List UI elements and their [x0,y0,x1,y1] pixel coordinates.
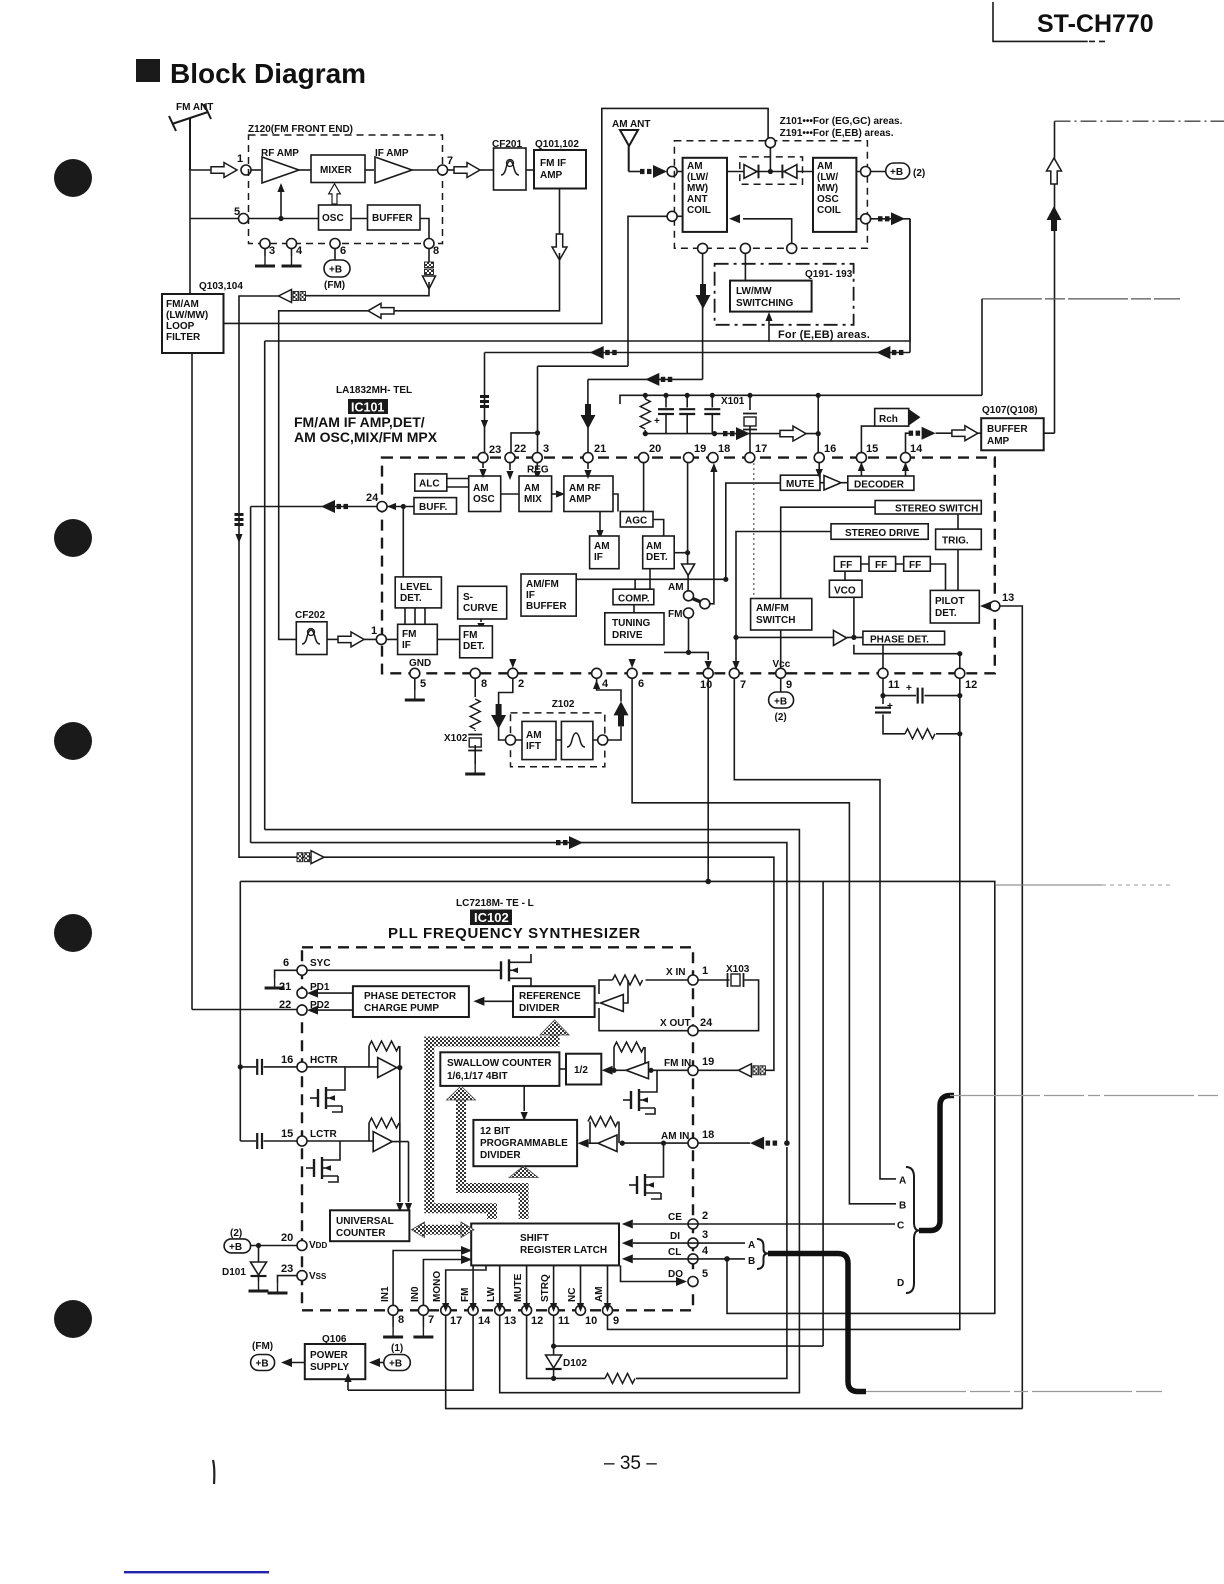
AM RF AMP box [564,476,613,512]
node VDD pin20 [297,1241,307,1251]
wire pin23 into AM OSC [482,463,484,468]
wire trig to pilot det [957,550,959,591]
svg-text:AM OSC,MIX/FM MPX: AM OSC,MIX/FM MPX [294,429,438,445]
svg-text:DET.: DET. [463,641,485,652]
wire X101 rail up [981,299,983,395]
phase det inverter [834,630,847,645]
svg-text:DRIVE: DRIVE [612,630,643,641]
node osc coil out lower [861,214,871,224]
wire charge pump to PD1 [318,992,353,994]
node pin24 [377,502,387,512]
svg-text:Block Diagram: Block Diagram [170,58,366,89]
wire IF amp to pin7 [412,169,438,171]
svg-text:24: 24 [366,492,379,504]
wire phase det to pin12 rail [854,645,960,669]
resistor pin8 [470,699,480,729]
svg-text:AM/FM: AM/FM [526,579,559,590]
wire DI line to A [633,1242,745,1244]
wire pin17 to SR [446,1265,486,1305]
arrow pin13 into pilot det [984,605,990,607]
arrow on am rf input rail [645,373,672,386]
node CE pin2 [688,1219,698,1229]
wire pin13 to SR [499,1265,501,1305]
svg-text:FF: FF [875,560,887,571]
node Z101 top [765,138,775,148]
wire AM MIX to AM RF AMP [552,493,556,495]
node DO pin5 [688,1277,698,1287]
AM OSC box [469,476,501,512]
IC101 top pin 19 [684,453,694,463]
hatch bus universal counter link [423,1225,463,1235]
IC101 bottom pin 8 [470,668,480,678]
svg-text:17: 17 [755,443,767,455]
svg-text:AM: AM [473,483,489,494]
svg-text:1: 1 [371,625,377,637]
brace AB group [757,1239,768,1269]
svg-text:Q103,104: Q103,104 [199,281,243,292]
Z102 dashed enclosure [511,713,605,767]
svg-text:ANT: ANT [687,194,708,205]
wire swallow to divider [523,1086,525,1111]
arrow ref divider to charge pump [484,1000,513,1002]
IC101 top pin 16 [814,453,824,463]
svg-text:+B: +B [329,265,342,276]
LW/MW switching box [730,281,812,312]
svg-text:3: 3 [543,443,549,455]
svg-text:For (E,EB) areas.: For (E,EB) areas. [778,329,870,341]
hatch arrow on FM rail pointing left [279,290,306,303]
svg-text:15: 15 [866,443,878,455]
wire FM IF to FM DET [437,638,459,640]
svg-text:IN1: IN1 [380,1286,391,1302]
wire AM out drop to AM IN rail [250,507,252,843]
svg-text:FM: FM [402,629,416,640]
svg-text:7: 7 [428,1314,434,1326]
wire comp to tuning drive [633,605,635,613]
svg-text:8: 8 [398,1314,404,1326]
phase detector charge pump box [353,986,469,1017]
AGC box [620,512,653,528]
node Z101 bottom 1 [698,243,708,253]
LCTR mosfet drop [338,1141,340,1160]
FF box 3 [904,557,931,572]
junction pin3 pin22 [535,430,540,435]
svg-text:DO: DO [668,1269,683,1280]
svg-text:STEREO DRIVE: STEREO DRIVE [845,528,920,539]
svg-text:LW: LW [486,1286,497,1302]
IC101 bottom pin 2 [508,668,518,678]
IC101 top pin 3 [532,453,542,463]
wire pin10 to SR [580,1265,582,1305]
binding hole dot 4 [54,914,92,952]
wire pin8 down [474,678,476,697]
FM IN inverter network [651,1069,688,1071]
svg-text:(FM): (FM) [324,280,345,291]
thick data wire AB [768,1254,866,1392]
arrow on pin24 feed [321,500,348,513]
wire pin21 drop [587,379,589,404]
svg-text:FM: FM [668,609,682,620]
svg-text:RF AMP: RF AMP [261,148,299,159]
svg-text:CL: CL [668,1247,681,1258]
wire ant coil to varactors [727,171,744,173]
HCTR CL loop top rail [240,881,995,1313]
STRQ riser [822,881,824,1346]
svg-text:LEVEL: LEVEL [400,582,432,593]
wire BUFFER to pin8 [420,219,429,239]
page header ST-CH770 frame [993,2,1105,41]
wire pin11 to SR [553,1265,555,1305]
hatch bus ref divider [429,1033,554,1219]
svg-text:DECODER: DECODER [854,480,905,491]
node CL pin4 [688,1254,698,1264]
faint line AB continuation [866,1391,1162,1393]
X101 bottom rail [645,433,818,435]
node pin7 [438,165,448,175]
IC101 top pin 21 [583,453,593,463]
wire antenna line down to loop filter [189,170,191,294]
AM band line pin9 to IC101 pin12 [608,734,960,1330]
svg-text:7: 7 [740,679,746,691]
open arrow up into mixer [329,184,341,204]
node PD2 pin22 [297,1005,307,1015]
wire AM DET to COMP [649,569,651,590]
wire pin12 down [959,678,961,734]
wire VCO to phase node [853,597,855,637]
svg-text:DET.: DET. [935,608,957,619]
open arrow on X101 bottom rail [780,426,806,441]
hatch marks on FM drop [235,513,244,526]
wire decoder to pin15 [860,471,862,476]
Rch tag [875,409,909,427]
svg-text:LW/MW: LW/MW [736,286,772,297]
wire VCO to FF1 [844,571,846,580]
arrow into switching box [768,320,770,342]
svg-text:DET.: DET. [400,593,422,604]
amplifier IF AMP [375,157,412,183]
buffer amp box [981,418,1043,450]
wire LCTR to universal counter [408,1142,410,1202]
node pin1 [241,165,251,175]
wire loop filter down to PD2 [191,353,193,1010]
wire AM OSC to AM MIX [501,493,519,495]
binding hole dot 3 [54,722,92,760]
svg-text:12: 12 [531,1315,543,1327]
svg-text:IC101: IC101 [351,401,384,415]
svg-text:(LW/: (LW/ [817,172,838,183]
open arrow on FM IF rail pointing left [368,303,394,318]
IC101 bottom pin 5 [410,668,420,678]
svg-text:A: A [899,1176,906,1187]
svg-text:14: 14 [910,443,923,455]
binding hole dot 2 [54,519,92,557]
wire to AM contact [687,576,689,591]
node osc coil right [861,167,871,177]
junction varactors [768,169,773,174]
svg-text:5: 5 [702,1268,708,1280]
svg-text:SHIFT: SHIFT [520,1233,549,1244]
svg-text:+: + [906,683,912,694]
wire CF201 to FM IF amp [526,169,534,171]
node PD1 pin21 [297,988,307,998]
svg-text:AM ANT: AM ANT [612,119,651,130]
svg-text:18: 18 [702,1129,714,1141]
AM DET box [643,536,675,569]
VSS ground [278,1276,298,1283]
svg-text:24: 24 [700,1017,713,1029]
svg-text:4: 4 [296,245,303,257]
ground pin8 [392,1315,394,1327]
svg-text:CE: CE [668,1212,682,1223]
wire FM rail to left drop [239,296,280,851]
Z102 ceramic filter [561,721,593,759]
svg-text:+B: +B [774,697,787,708]
mixer box [311,155,365,183]
svg-text:12 BIT: 12 BIT [480,1126,510,1137]
arrows onto bottom pins [442,1303,449,1312]
BUFFER box [368,205,421,230]
LW/MW switching dashed enclosure [715,264,854,325]
IC102 bottom pin 14 [468,1305,478,1315]
arrow into ant coil right [729,214,740,223]
VCO box [829,580,862,597]
IC101 top pin 17 [745,453,755,463]
wire OSC up to mixer [334,204,336,205]
arrow power supply to +B FM [288,1362,305,1364]
FF chain wires [861,564,946,590]
svg-text:6: 6 [638,678,644,690]
node ant coil lower [667,211,677,221]
svg-text:Z191•••For (E,EB) areas.: Z191•••For (E,EB) areas. [780,128,894,139]
wire pin12 to SR [526,1265,528,1305]
supply +B 2 oval [886,163,910,179]
svg-text:19: 19 [702,1056,714,1068]
svg-text:Q107(Q108): Q107(Q108) [982,405,1038,416]
wire AM rf rail [485,352,911,354]
open arrow into pin1 [211,163,237,178]
svg-text:D: D [897,1278,904,1289]
node X IN pin1 [688,975,698,985]
svg-text:10: 10 [700,679,712,691]
svg-text:BUFF.: BUFF. [419,502,448,513]
wire CL line to B [633,1258,745,1260]
wire FM IF output down to rail [394,253,560,311]
svg-text:DIVIDER: DIVIDER [519,1003,560,1014]
hatch bus swallow counter [461,1098,524,1219]
LW band line [265,830,800,1393]
IC102 bottom pin 7 [418,1305,428,1315]
switch AM contact [684,591,694,601]
svg-text:VSS: VSS [309,1271,327,1282]
MUTE box [780,475,820,490]
svg-text:IN0: IN0 [410,1286,421,1302]
HCTR buffer [378,1058,397,1078]
svg-text:AM RF: AM RF [569,483,601,494]
svg-text:AM: AM [524,483,540,494]
wire RF amp to mixer [299,169,311,171]
DECODER box [848,476,914,490]
svg-text:POWER: POWER [310,1350,349,1361]
arrow AM osc output [878,212,905,225]
wire IC101 pin6 to B [632,678,896,1204]
filled arrow up on riser [1047,206,1062,231]
node pin1 IC101 [376,634,386,644]
svg-text:D101: D101 [222,1267,246,1278]
node X OUT pin24 [688,1026,698,1036]
wire Z101 pin1 down [702,253,704,379]
brace ABCD group [906,1167,919,1293]
IC101 top pin 14 [901,453,911,463]
svg-text:COIL: COIL [687,205,711,216]
svg-text:3: 3 [702,1229,708,1241]
svg-text:C: C [897,1221,904,1232]
AM ant coil box [683,158,727,232]
IC102 dashed border [302,947,693,1310]
wire pin5 to OSC [249,218,319,220]
wire pin to ant coil [677,171,683,173]
svg-text:2: 2 [702,1210,708,1222]
svg-text:+B: +B [389,1359,402,1370]
svg-text:X102: X102 [444,733,468,744]
supply +B FM oval [334,249,336,261]
svg-text:SYC: SYC [310,958,331,969]
svg-text:AM: AM [646,541,662,552]
svg-text:Z102: Z102 [552,699,575,710]
FM IF AMP box [534,150,586,189]
IC101 top pin 20 [639,453,649,463]
wire HCTR to universal counter [399,1068,401,1202]
svg-text:AM: AM [526,730,542,741]
svg-text:IF AMP: IF AMP [375,148,409,159]
wire Z101 pin2 to switching [744,253,746,280]
wire mpx line into tuning area [634,579,636,589]
svg-text:Z120(FM FRONT END): Z120(FM FRONT END) [248,124,353,135]
svg-text:Rch: Rch [879,414,898,425]
IC101 bottom pin 9 [776,668,786,678]
svg-text:A: A [748,1240,755,1251]
node SYC pin6 [297,965,307,975]
svg-text:LA1832MH- TEL: LA1832MH- TEL [336,385,412,396]
mute inverter triangle [824,476,841,491]
AM/FM IF BUFFER box [521,574,576,616]
AM osc to AM IN riser [251,843,787,1144]
svg-text:FM/AM: FM/AM [166,299,199,310]
svg-text:16: 16 [824,443,836,455]
IC101 designator plate [348,399,388,414]
wire ant coil lower to drop [628,216,667,366]
mosfet Q SYC [493,959,525,981]
arrow AM into pin21 [581,404,596,429]
wire stereo switch to pin9 rail [781,507,875,668]
node DI pin3 [688,1238,698,1248]
svg-text:16: 16 [281,1054,293,1066]
faint line mid right [995,884,1102,886]
svg-text:AM: AM [817,161,833,172]
X101 top plate rail [620,395,982,404]
node HCTR pin16 [297,1062,307,1072]
svg-text:6: 6 [283,957,289,969]
wire AM RF AMP to AGC [613,494,618,512]
amplifier RF AMP [262,157,299,183]
switch FM contact [684,608,694,618]
svg-text:17: 17 [450,1315,462,1327]
IC101 top pin 22 [505,453,515,463]
svg-text:VCO: VCO [834,586,856,597]
AM/FM SWITCH box [751,599,812,631]
svg-text:11: 11 [558,1315,570,1327]
binding hole dot 5 [54,1300,92,1338]
IC102 bottom pin 13 [495,1305,505,1315]
svg-text:X101: X101 [721,396,745,407]
svg-text:3: 3 [269,245,275,257]
svg-text:+B: +B [229,1242,242,1253]
svg-text:Z101•••For (EG,GC) areas.: Z101•••For (EG,GC) areas. [780,116,903,127]
svg-text:AMP: AMP [540,170,563,181]
svg-text:10: 10 [585,1315,597,1327]
svg-text:CF202: CF202 [295,610,325,621]
ground below pin4 [291,249,293,257]
FF box 2 [869,557,896,572]
IC101 bottom pin 10 [703,668,713,678]
wire pin2 to Z102 [499,678,513,740]
thick data wire CD [919,1096,954,1231]
open arrow up on riser [1047,158,1062,184]
svg-text:15: 15 [281,1128,293,1140]
AM IF box [590,536,619,569]
wire charge pump to PD2 [318,1009,353,1011]
wire varactors to osc coil [797,171,813,173]
junction on osc line [278,216,283,221]
svg-text:MUTE: MUTE [513,1273,524,1302]
wire stereo switch to trig [957,514,959,529]
SYC ground stub [275,970,297,978]
svg-text:9: 9 [786,679,792,691]
STEREO SWITCH box [875,501,981,515]
IC102 designator plate [470,910,512,926]
open arrow CF202 to pin1 [327,638,338,640]
wire Z102 out to pin4 [597,678,621,740]
LEVEL DET box [395,577,441,608]
IC102 bottom pin 11 [549,1305,559,1315]
wire FM contact down [688,618,690,652]
stray pen mark [213,1460,214,1484]
svg-text:MW): MW) [687,183,708,194]
wire swallow to half [559,1068,566,1070]
svg-text:23: 23 [281,1263,293,1275]
hatch arrow on FM feed [297,851,324,864]
filter CF201 [494,148,527,190]
MONO line to IC101 pin13 [446,1315,1023,1408]
diode D102 [551,1344,556,1349]
arrow +B1 into power supply [375,1362,384,1364]
junction BUFF line [401,504,406,509]
node Z101 bottom 3 [787,243,797,253]
svg-text:CURVE: CURVE [463,603,498,614]
wire CE line [633,1223,895,1225]
wire loop filter riser to PD2 [192,1009,297,1011]
wire cap to resistor [883,715,905,734]
svg-text:BUFFER: BUFFER [372,213,413,224]
svg-text:D102: D102 [563,1358,587,1369]
PHASE DET box [863,631,945,645]
IC102 bottom pin 12 [522,1305,532,1315]
svg-text:B: B [748,1256,755,1267]
svg-text:12: 12 [965,679,977,691]
arrow down onto pin6 [629,659,636,668]
HCTR external cap [238,1064,243,1069]
swallow counter box [440,1052,559,1086]
node dots on X101 rail [643,393,648,398]
